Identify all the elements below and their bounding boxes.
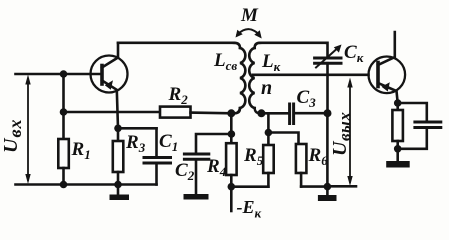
wire: VT2 emitter node to bypass capacitor: [398, 103, 427, 120]
resistor R4: [226, 143, 237, 175]
label n (tap turns): [261, 77, 272, 99]
wire: tank bottom supply net to C3: [261, 112, 288, 115]
wire: R5 top lead: [267, 113, 270, 145]
label C3: [297, 87, 317, 110]
wire: R6 bottom lead to ground node: [300, 173, 303, 187]
wire: R5 bottom lead: [267, 173, 270, 187]
junction: C2 tap on R4 lead: [228, 130, 236, 138]
wire: tank top to variable capacitor C_k: [260, 41, 327, 44]
junction: L_k bottom on supply net: [257, 109, 265, 117]
wire: U_vyx bottom reference line: [327, 185, 356, 188]
resistor R3: [113, 141, 124, 172]
label R1: [71, 139, 91, 162]
label U_vyx: [329, 112, 354, 156]
ground under C3 net: [326, 187, 329, 195]
wire: -Ek rail to R5 bottom: [231, 185, 268, 188]
arrowhead: U_vyx bottom: [347, 176, 352, 186]
wire: coil tap to VT2 base: [253, 74, 369, 77]
wire: base bias line to R2: [64, 111, 161, 114]
wire: bottom common rail (input side): [16, 183, 157, 186]
transistor VT2 (PNP): [369, 57, 406, 94]
label R2: [168, 84, 189, 107]
wire: ground net vertical (C3/C_k return): [326, 113, 329, 186]
junction: VT2 emitter node: [394, 99, 402, 107]
wire: VT1 collector to L_sv top: [118, 41, 234, 44]
wire: VT2 emitter resistor top lead: [396, 103, 399, 110]
arrowhead: U_vx top: [25, 75, 30, 85]
junction: R1 branch / R2 line: [60, 108, 68, 116]
wire: R6 branch from R5 lead: [268, 133, 298, 145]
inductor L_k (tank winding): [255, 43, 260, 48]
capacitor (VT2 emitter bypass, unlabeled): [415, 121, 441, 124]
wire: supply node down to R4: [230, 113, 233, 143]
junction: -Ek node at R4 bottom: [228, 183, 236, 191]
mutual coupling M arrow: [238, 29, 260, 35]
wire: R3 bottom lead: [117, 172, 120, 185]
capacitor C1: [155, 128, 158, 156]
wire: R1 branch from base node down: [62, 74, 65, 139]
supply stub -Ek: [230, 187, 233, 211]
arrowhead: U_vyx top: [347, 78, 352, 88]
resistor R2: [160, 107, 191, 118]
wire: C3 to ground net: [295, 112, 328, 115]
node: U_vyx measurement arrow: [349, 82, 351, 182]
label R6: [308, 145, 329, 168]
label C1: [159, 131, 178, 154]
node: U_vx measurement arrow: [27, 79, 29, 180]
capacitor C2: [184, 153, 208, 156]
variable capacitor C_k: [315, 57, 341, 60]
junction: R1 bottom on rail: [60, 181, 68, 189]
wire: bypass capacitor return: [398, 128, 427, 149]
junction: supply node (R2 / L_sv / R4): [227, 109, 235, 117]
wire: R3 top lead: [117, 128, 120, 141]
wire: R4 bottom lead: [230, 175, 233, 187]
wire: R2 to supply node: [191, 111, 232, 114]
wire: input top rail to VT1 base: [16, 73, 103, 76]
resistor R1: [58, 139, 69, 168]
label -Ek: [237, 197, 262, 221]
label M: [240, 5, 259, 26]
resistor R5: [263, 145, 274, 173]
label R5: [243, 145, 264, 168]
junction: VT1 base / R1: [60, 70, 68, 78]
label R4: [206, 156, 227, 179]
arrowhead: U_vx bottom: [25, 174, 30, 184]
inductor L_sv (coupling winding): [234, 43, 240, 48]
junction: R6 tap on R5 lead: [265, 129, 273, 137]
resistor R6: [296, 144, 307, 173]
label U_vx: [0, 119, 25, 154]
junction: ground node at R6 bottom: [324, 183, 332, 191]
wire: VT1 emitter node to C1: [118, 127, 157, 130]
label C_k: [344, 42, 364, 65]
wire: VT2 emitter resistor bottom lead: [396, 141, 399, 149]
label R3: [125, 132, 146, 155]
ground under R3: [117, 185, 120, 195]
ground under C2: [184, 194, 209, 200]
label C2: [175, 160, 195, 183]
capacitor C3: [288, 104, 291, 124]
junction: VT2 emitter RC bottom: [394, 145, 402, 153]
svg-text:п: п: [261, 77, 272, 99]
ground under VT2 emitter: [396, 149, 399, 161]
transistor VT1 (PNP): [91, 56, 128, 93]
wire: C2 branch from supply node: [196, 134, 231, 153]
svg-text:M: M: [240, 5, 259, 26]
label L_sv: [213, 50, 237, 73]
resistor (VT2 emitter, unlabeled): [392, 110, 403, 141]
wire: C_k bottom crossing base line down to ground net: [326, 63, 329, 113]
label L_k: [261, 51, 281, 74]
junction: R3 bottom / rail / C1 return: [114, 181, 122, 189]
junction: C3 / C_k ground net top: [324, 109, 332, 117]
junction: VT1 emitter node: [114, 125, 122, 133]
wire: R1 bottom lead: [62, 168, 65, 185]
